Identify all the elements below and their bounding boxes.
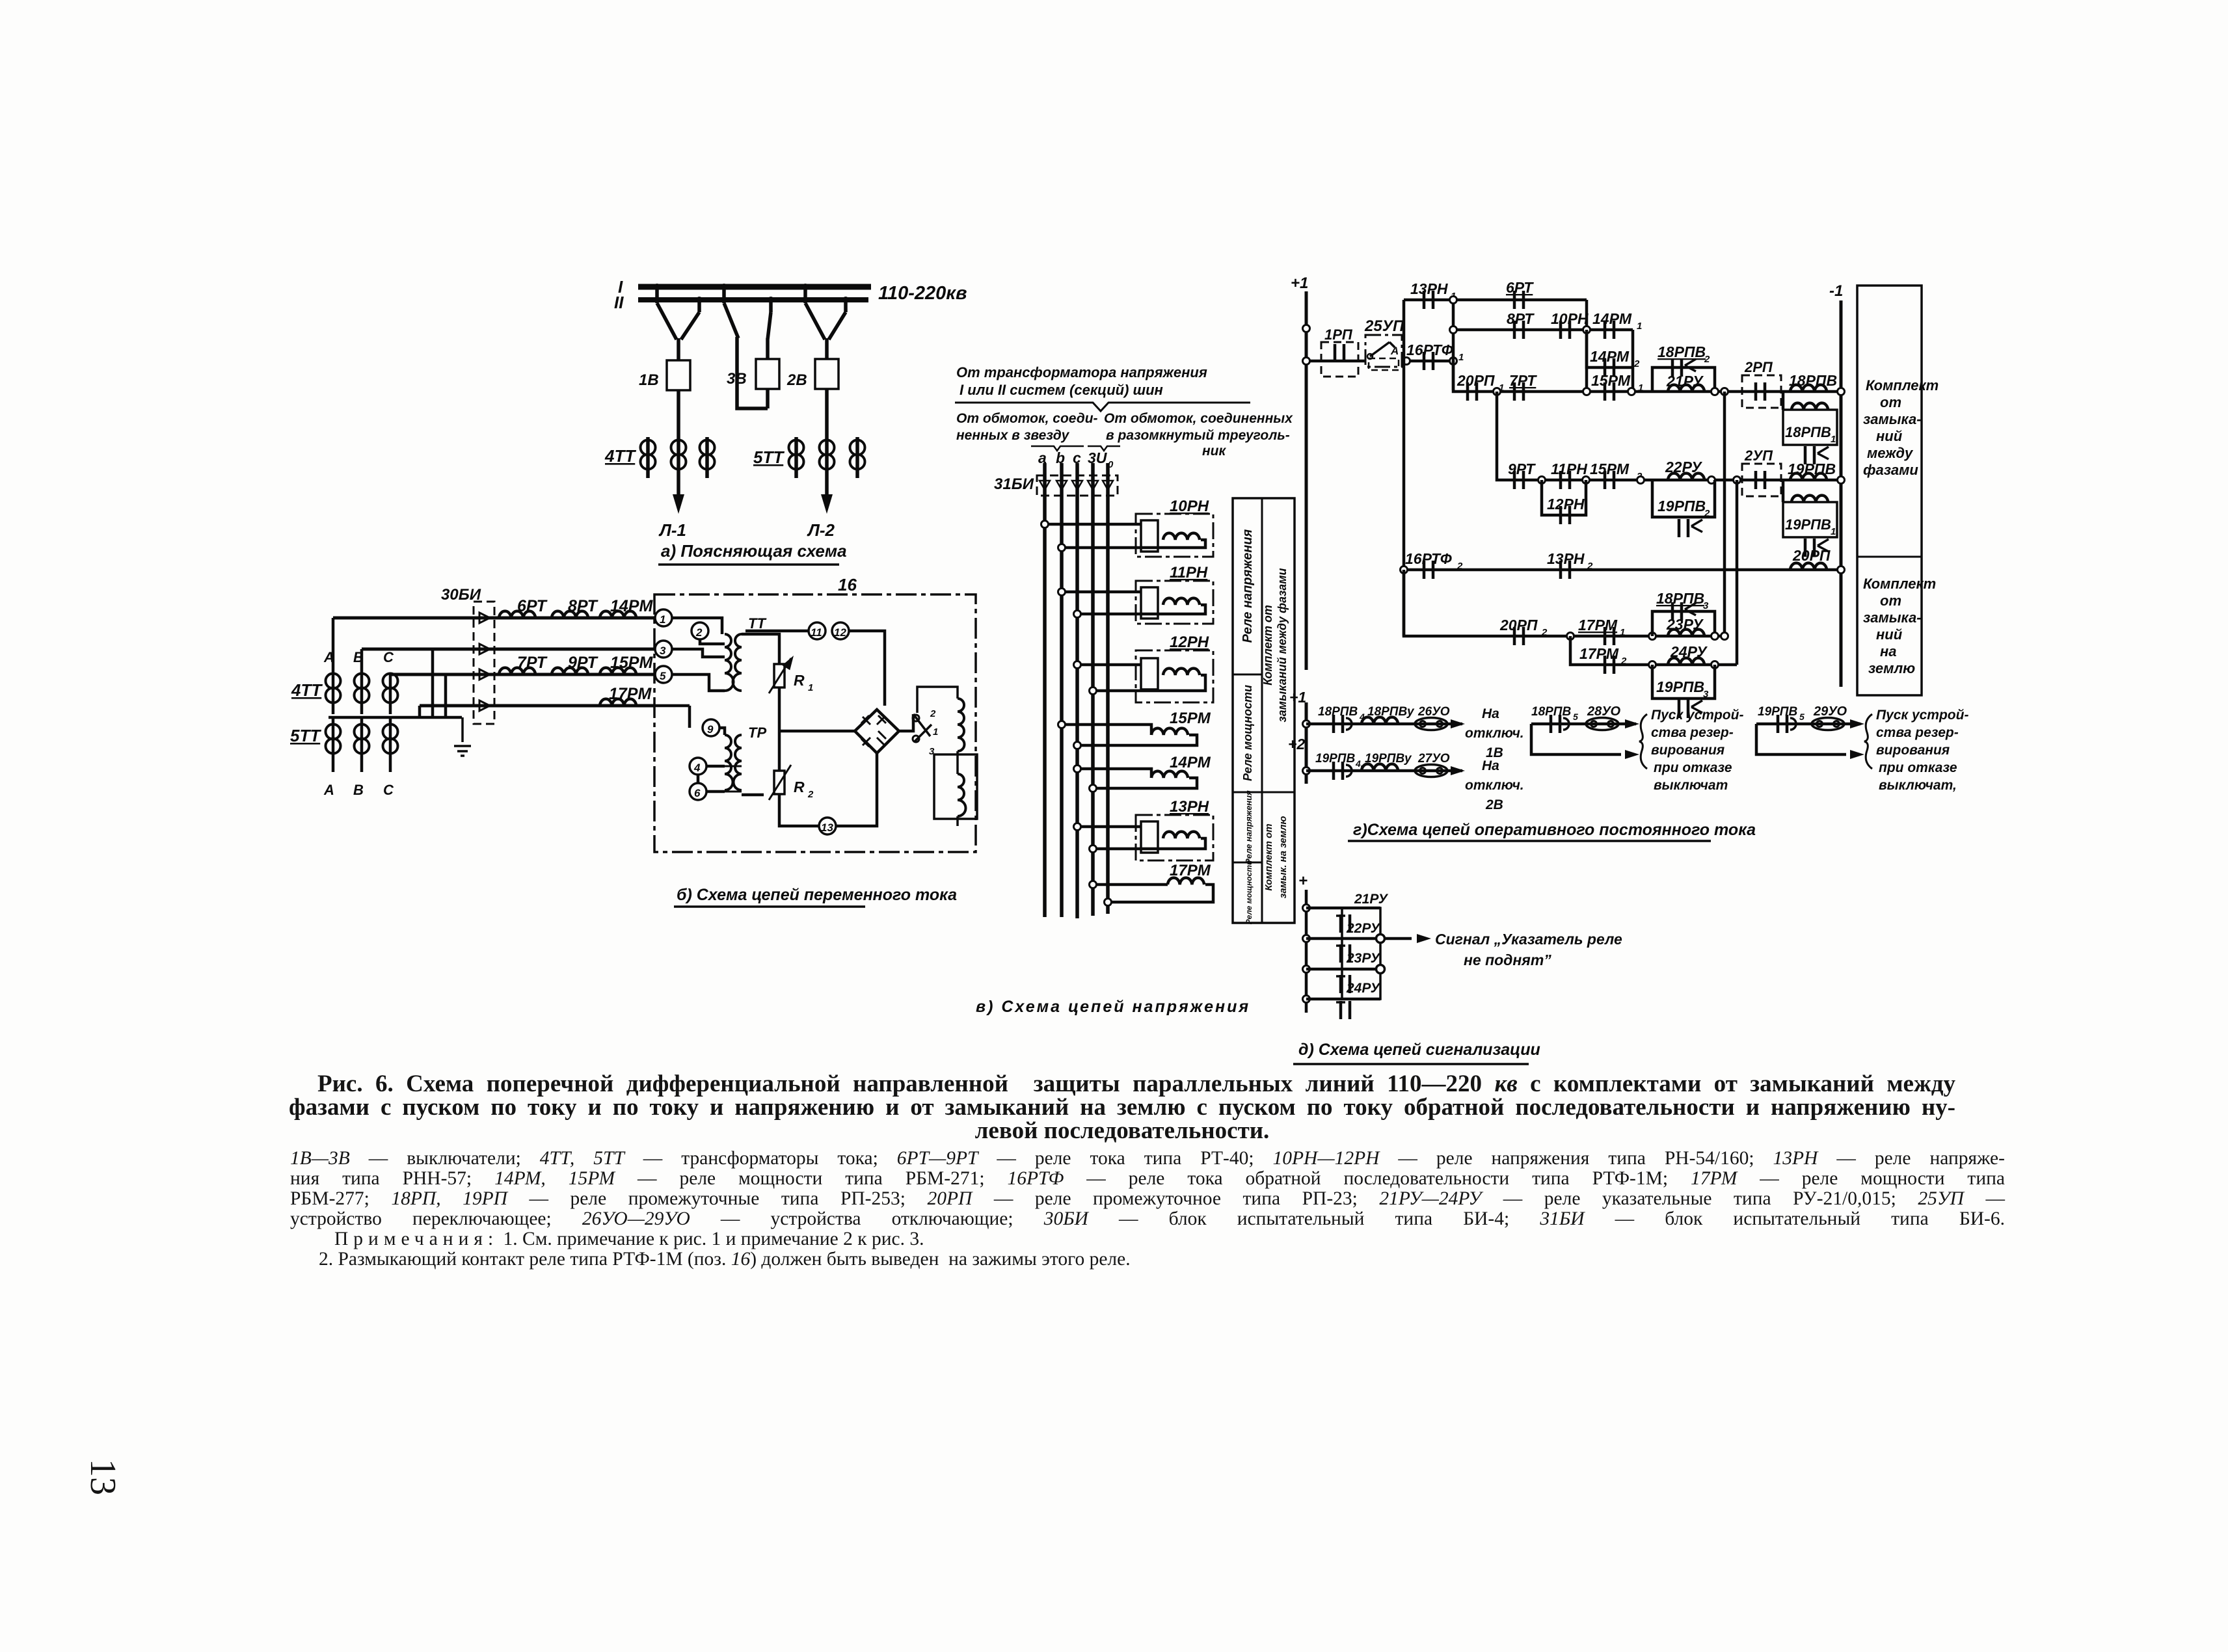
svg-text:18РПВ: 18РПВ [1785, 424, 1831, 440]
svg-text:11РН: 11РН [1170, 564, 1208, 581]
svg-text:отключ.: отключ. [1465, 726, 1524, 741]
svg-text:От трансформатора напряжения: От трансформатора напряжения [956, 364, 1207, 380]
svg-text:18РПВ: 18РПВ [1656, 590, 1704, 607]
svg-text:Пуск устрой-: Пуск устрой- [1651, 708, 1743, 723]
svg-text:24РУ: 24РУ [1670, 643, 1708, 660]
svg-text:31БИ: 31БИ [994, 475, 1034, 493]
svg-text:Реле напряжения: Реле напряжения [1241, 529, 1255, 643]
svg-text:18РПВу: 18РПВу [1367, 705, 1415, 719]
svg-text:9: 9 [707, 723, 714, 736]
svg-text:1: 1 [1458, 352, 1464, 363]
svg-text:от: от [1880, 593, 1901, 609]
svg-text:1: 1 [1831, 526, 1836, 537]
svg-text:20РП: 20РП [1499, 617, 1538, 633]
svg-text:Сигнал „Указатель реле: Сигнал „Указатель реле [1435, 931, 1622, 948]
svg-text:16РТФ: 16РТФ [1405, 550, 1452, 567]
svg-text:1: 1 [1637, 321, 1642, 332]
svg-text:19РПВ: 19РПВ [1785, 516, 1831, 533]
svg-text:19РПВ: 19РПВ [1315, 752, 1355, 766]
svg-text:ний: ний [1876, 428, 1903, 444]
svg-text:2: 2 [1633, 358, 1640, 369]
svg-text:11РН: 11РН [1551, 460, 1587, 477]
svg-text:110-220кв: 110-220кв [878, 283, 967, 304]
svg-text:Л-2: Л-2 [807, 520, 835, 540]
svg-text:+2: +2 [1288, 736, 1305, 753]
svg-text:выключат: выключат [1654, 778, 1728, 793]
svg-text:Комплект от: Комплект от [1263, 823, 1274, 890]
svg-text:7РТ: 7РТ [517, 654, 548, 672]
svg-text:18РПВ: 18РПВ [1658, 343, 1706, 360]
svg-text:6: 6 [694, 787, 701, 799]
svg-text:между: между [1867, 445, 1914, 461]
svg-text:29УО: 29УО [1813, 704, 1847, 719]
svg-text:14РМ: 14РМ [610, 597, 653, 615]
svg-text:На: На [1482, 706, 1499, 721]
svg-text:2: 2 [1704, 508, 1710, 519]
svg-text:5ТТ: 5ТТ [753, 447, 785, 467]
svg-text:8РТ: 8РТ [568, 597, 599, 615]
svg-text:2В: 2В [1485, 797, 1503, 812]
svg-text:5: 5 [1799, 712, 1805, 722]
svg-text:Л-1: Л-1 [658, 520, 686, 540]
svg-text:5: 5 [660, 670, 666, 682]
svg-text:12РН: 12РН [1547, 496, 1585, 513]
svg-text:23РУ: 23РУ [1346, 951, 1381, 966]
svg-text:3: 3 [660, 645, 666, 657]
svg-text:16РТФ: 16РТФ [1406, 341, 1453, 358]
svg-text:не поднят”: не поднят” [1464, 952, 1551, 968]
svg-text:Пуск устрой-: Пуск устрой- [1876, 708, 1968, 723]
svg-text:2: 2 [1620, 656, 1627, 667]
svg-text:1В: 1В [639, 371, 659, 389]
svg-text:13: 13 [821, 821, 833, 834]
svg-text:2: 2 [807, 789, 814, 800]
svg-text:ТТ: ТТ [748, 615, 766, 632]
svg-text:Комплект от: Комплект от [1261, 605, 1274, 686]
svg-text:землю: землю [1868, 660, 1915, 676]
svg-text:24РУ: 24РУ [1346, 981, 1381, 996]
svg-text:20РП: 20РП [1792, 547, 1831, 564]
svg-text:19РПВ: 19РПВ [1788, 460, 1836, 477]
svg-text:11: 11 [811, 626, 822, 639]
svg-text:10РН: 10РН [1170, 498, 1209, 515]
svg-text:1: 1 [808, 682, 813, 693]
svg-text:выключат,: выключат, [1879, 778, 1957, 793]
svg-text:R: R [794, 779, 805, 795]
svg-text:отключ.: отключ. [1465, 778, 1524, 793]
svg-text:В: В [353, 649, 364, 665]
svg-text:2: 2 [1704, 354, 1710, 365]
svg-text:1: 1 [1831, 434, 1836, 445]
svg-text:22РУ: 22РУ [1665, 459, 1703, 475]
svg-text:вирования: вирования [1651, 743, 1725, 758]
svg-text:Реле мощности: Реле мощности [1244, 860, 1254, 924]
svg-text:19РПВ: 19РПВ [1758, 705, 1797, 719]
svg-text:ства резер-: ства резер- [1651, 725, 1734, 740]
svg-text:19РПВ: 19РПВ [1656, 678, 1704, 695]
svg-text:Реле мощности: Реле мощности [1241, 685, 1254, 781]
svg-text:5ТТ: 5ТТ [290, 726, 321, 745]
svg-text:I или II систем (секций) шин: I или II систем (секций) шин [960, 382, 1163, 398]
svg-text:5: 5 [1573, 712, 1578, 722]
svg-text:б) Схема цепей переменного ток: б) Схема цепей переменного тока [677, 886, 957, 904]
svg-text:1: 1 [933, 726, 938, 738]
svg-text:15РМ: 15РМ [610, 654, 653, 672]
svg-text:На: На [1482, 758, 1499, 773]
svg-text:15РМ: 15РМ [1170, 710, 1211, 727]
svg-text:+1: +1 [1291, 274, 1308, 292]
svg-text:А: А [323, 649, 334, 665]
svg-text:Комплект: Комплект [1866, 377, 1939, 393]
svg-text:2УП: 2УП [1744, 447, 1773, 464]
svg-text:15РМ: 15РМ [1590, 460, 1630, 477]
svg-text:+1: +1 [1289, 689, 1306, 706]
svg-text:20РП: 20РП [1456, 372, 1495, 389]
svg-text:25УП: 25УП [1364, 317, 1404, 335]
svg-text:17РМ: 17РМ [1579, 645, 1619, 662]
svg-text:вирования: вирования [1876, 743, 1950, 758]
svg-text:1: 1 [1638, 382, 1643, 393]
svg-text:18РПВ: 18РПВ [1531, 705, 1571, 719]
svg-text:12: 12 [834, 626, 846, 639]
svg-text:ства резер-: ства резер- [1876, 725, 1959, 740]
svg-text:С: С [383, 649, 394, 665]
svg-text:26УО: 26УО [1417, 705, 1450, 719]
svg-text:12РН: 12РН [1170, 633, 1209, 651]
svg-text:на: на [1880, 643, 1897, 659]
svg-text:4ТТ: 4ТТ [291, 680, 323, 700]
svg-text:ненных в звезду: ненных в звезду [956, 428, 1070, 443]
svg-text:А: А [1390, 345, 1399, 357]
svg-text:Комплект: Комплект [1863, 576, 1936, 592]
svg-text:ний: ний [1876, 626, 1903, 643]
svg-text:3: 3 [929, 746, 935, 757]
svg-text:21РУ: 21РУ [1354, 892, 1389, 907]
svg-text:3: 3 [1703, 689, 1709, 700]
svg-text:17РМ: 17РМ [1578, 617, 1618, 633]
svg-text:в) Схема цепей напряжения: в) Схема цепей напряжения [976, 998, 1250, 1016]
svg-text:4ТТ: 4ТТ [604, 446, 636, 466]
svg-text:С: С [383, 782, 394, 798]
svg-text:-1: -1 [1829, 282, 1843, 300]
svg-text:замыка-: замыка- [1863, 609, 1922, 626]
svg-text:27УО: 27УО [1417, 752, 1450, 766]
svg-text:15РМ: 15РМ [1591, 372, 1631, 389]
svg-text:8РТ: 8РТ [1507, 310, 1535, 327]
svg-text:16: 16 [838, 575, 857, 594]
svg-text:2: 2 [1456, 561, 1463, 572]
svg-text:23РУ: 23РУ [1666, 616, 1704, 633]
svg-text:17РМ: 17РМ [609, 685, 652, 703]
svg-text:2РП: 2РП [1744, 359, 1773, 375]
svg-text:1: 1 [660, 613, 665, 626]
svg-text:фазами: фазами [1863, 462, 1918, 478]
svg-text:г)Схема цепей оперативного по: г)Схема цепей оперативного постоянного т… [1353, 821, 1756, 839]
svg-text:14РМ: 14РМ [1592, 310, 1632, 327]
svg-text:19РПВ: 19РПВ [1658, 498, 1706, 514]
svg-text:д) Схема цепей сигнализации: д) Схема цепей сигнализации [1298, 1041, 1540, 1059]
svg-text:2: 2 [930, 708, 936, 719]
svg-text:13РН: 13РН [1547, 550, 1585, 567]
svg-text:14РМ: 14РМ [1590, 348, 1630, 365]
svg-text:2: 2 [1587, 561, 1593, 572]
svg-text:В: В [353, 782, 364, 798]
svg-text:От обмоток, соединенных: От обмоток, соединенных [1104, 411, 1293, 426]
svg-text:6РТ: 6РТ [517, 597, 548, 615]
svg-text:от: от [1880, 394, 1901, 410]
svg-text:28УО: 28УО [1587, 704, 1621, 719]
svg-text:9РТ: 9РТ [568, 654, 599, 672]
svg-text:II: II [614, 293, 624, 312]
svg-text:1РП: 1РП [1324, 326, 1353, 343]
svg-text:при отказе: при отказе [1879, 760, 1957, 775]
svg-text:18РПВ: 18РПВ [1318, 705, 1358, 719]
svg-text:ник: ник [1202, 444, 1227, 459]
svg-text:9РТ: 9РТ [1508, 460, 1536, 477]
svg-text:2: 2 [1541, 627, 1548, 638]
svg-text:1: 1 [1620, 627, 1625, 638]
svg-text:а) Поясняющая схема: а) Поясняющая схема [661, 541, 847, 561]
svg-text:21РУ: 21РУ [1666, 373, 1704, 390]
svg-text:ТР: ТР [748, 725, 766, 741]
svg-text:14РМ: 14РМ [1170, 754, 1211, 771]
svg-text:13РН: 13РН [1410, 280, 1448, 297]
svg-text:Реле напряжения: Реле напряжения [1244, 790, 1254, 864]
svg-text:замык. на землю: замык. на землю [1278, 816, 1289, 899]
svg-text:2В: 2В [786, 371, 807, 389]
svg-text:при отказе: при отказе [1654, 760, 1732, 775]
svg-text:6РТ: 6РТ [1506, 279, 1534, 296]
svg-text:замыканий между фазами: замыканий между фазами [1276, 568, 1289, 722]
svg-text:22РУ: 22РУ [1346, 921, 1381, 936]
svg-text:18РПВ: 18РПВ [1789, 372, 1837, 389]
svg-text:замыка-: замыка- [1863, 411, 1922, 427]
svg-text:3В: 3В [727, 370, 747, 388]
svg-text:19РПВу: 19РПВу [1365, 752, 1412, 766]
svg-text:3U: 3U [1088, 449, 1108, 466]
svg-text:От обмоток, соеди-: От обмоток, соеди- [956, 411, 1098, 426]
svg-text:А: А [323, 782, 334, 798]
svg-text:в разомкнутый треуголь-: в разомкнутый треуголь- [1106, 428, 1290, 443]
svg-text:+: + [1298, 872, 1308, 890]
svg-text:3: 3 [1703, 600, 1709, 611]
svg-text:R: R [794, 672, 805, 689]
svg-text:4: 4 [693, 762, 701, 774]
svg-text:7РТ: 7РТ [1509, 372, 1537, 389]
svg-text:2: 2 [695, 626, 703, 639]
svg-text:10РН: 10РН [1551, 310, 1589, 327]
svg-text:13РН: 13РН [1170, 798, 1209, 816]
